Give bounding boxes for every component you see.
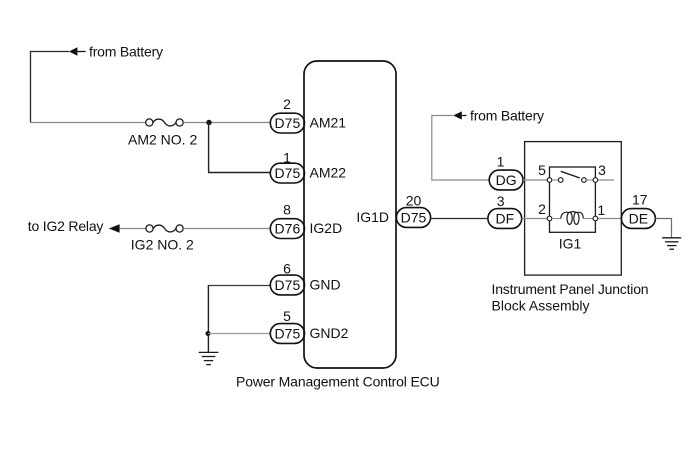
svg-text:D76: D76 xyxy=(275,221,301,237)
svg-text:AM21: AM21 xyxy=(310,115,347,131)
svg-text:20: 20 xyxy=(406,193,422,209)
wire fuse to connector IG2D xyxy=(183,228,270,230)
svg-text:AM22: AM22 xyxy=(310,165,347,181)
svg-text:AM2 NO. 2: AM2 NO. 2 xyxy=(128,131,197,147)
svg-text:1: 1 xyxy=(597,202,605,218)
svg-text:IG2 NO. 2: IG2 NO. 2 xyxy=(131,236,194,252)
relay contact pin 2 xyxy=(547,216,552,221)
svg-text:to IG2 Relay: to IG2 Relay xyxy=(28,218,104,234)
wire battery feed L-shape top-left xyxy=(31,52,70,123)
svg-text:DE: DE xyxy=(629,211,648,227)
svg-text:from Battery: from Battery xyxy=(470,107,544,123)
arrow from Battery (right) xyxy=(453,111,466,119)
svg-text:1: 1 xyxy=(283,150,291,166)
node junction on AM2 line xyxy=(206,120,211,125)
svg-text:2: 2 xyxy=(283,96,291,112)
svg-text:IG1D: IG1D xyxy=(356,209,389,225)
svg-text:DF: DF xyxy=(495,211,514,227)
svg-text:5: 5 xyxy=(283,308,291,324)
wire D75 to DF xyxy=(431,218,488,220)
connector D76 pin 8 (IG2D) xyxy=(270,219,304,239)
node junction GND2 xyxy=(206,331,211,336)
wire relay pin 1 to DE xyxy=(598,218,622,220)
ground (right) xyxy=(662,238,681,249)
wire pin5 to switch contact xyxy=(552,179,559,181)
svg-text:17: 17 xyxy=(632,191,648,207)
svg-text:D75: D75 xyxy=(275,326,301,342)
connector DE pin 17 xyxy=(621,209,655,229)
fuse IG2 NO. 2 xyxy=(146,225,183,232)
svg-text:from Battery: from Battery xyxy=(89,44,163,60)
arrow from Battery (left) xyxy=(69,47,86,55)
arrow to IG2 Relay xyxy=(109,224,120,232)
wire GND2 row xyxy=(208,333,271,335)
svg-text:D75: D75 xyxy=(275,277,301,293)
svg-text:2: 2 xyxy=(538,201,546,217)
svg-text:Instrument Panel Junction: Instrument Panel Junction xyxy=(492,281,649,297)
switch blade xyxy=(561,171,580,178)
wire fuse to connector AM21 xyxy=(183,122,270,124)
wire GND vertical down xyxy=(207,286,209,334)
svg-text:GND: GND xyxy=(310,277,341,293)
wire DG to relay pin 5 xyxy=(523,179,547,181)
switch contact right xyxy=(582,178,587,183)
wire branch to AM22 xyxy=(208,123,271,173)
svg-text:D75: D75 xyxy=(401,210,427,226)
wire switch contact to pin 3 xyxy=(586,179,593,181)
connector D75 pin 20 (IG1D) xyxy=(396,208,430,228)
connector D75 pin 6 (GND) xyxy=(270,275,304,295)
wire GND row xyxy=(208,285,271,287)
wire pin2 to coil xyxy=(552,218,561,220)
relay IG1 body xyxy=(550,167,596,232)
ground (left) xyxy=(199,352,219,364)
svg-text:5: 5 xyxy=(538,162,546,178)
relay contact pin 5 xyxy=(547,178,552,183)
wire to ground xyxy=(207,334,209,353)
svg-text:D75: D75 xyxy=(275,165,301,181)
wire pin 3 stub xyxy=(598,179,614,181)
relay contact pin 3 xyxy=(593,178,598,183)
svg-text:6: 6 xyxy=(283,261,291,277)
svg-text:8: 8 xyxy=(283,202,291,218)
wire DF to relay pin 2 xyxy=(522,218,548,220)
switch contact left xyxy=(558,178,563,183)
svg-text:Block Assembly: Block Assembly xyxy=(492,298,590,314)
relay contact pin 1 xyxy=(593,216,598,221)
connector DG pin 1 xyxy=(489,170,523,190)
connector DF pin 3 xyxy=(488,209,522,229)
svg-text:IG2D: IG2D xyxy=(310,220,343,236)
svg-text:1: 1 xyxy=(497,154,505,170)
wire arrow to IG2 fuse xyxy=(120,228,146,230)
connector D75 pin 5 (GND2) xyxy=(270,324,304,344)
svg-text:GND2: GND2 xyxy=(310,325,349,341)
wire coil to pin 1 xyxy=(583,218,593,220)
ECU box Power Management Control ECU xyxy=(304,61,396,368)
svg-text:3: 3 xyxy=(497,193,505,209)
svg-text:D75: D75 xyxy=(275,115,301,131)
svg-text:DG: DG xyxy=(496,172,517,188)
svg-text:IG1: IG1 xyxy=(559,236,582,252)
wire battery feed L-shape right xyxy=(432,116,489,181)
wire DE to ground xyxy=(656,219,672,238)
Instrument Panel Junction Block box xyxy=(525,142,622,276)
svg-text:3: 3 xyxy=(598,162,606,178)
coil IG1 xyxy=(561,212,583,225)
svg-text:Power Management Control ECU: Power Management Control ECU xyxy=(236,374,440,390)
connector D75 pin 1 (AM22) xyxy=(270,163,304,183)
fuse AM2 NO. 2 xyxy=(146,119,184,126)
wire AM2 feed left of fuse xyxy=(31,122,146,124)
connector D75 pin 2 (AM21) xyxy=(270,113,304,133)
